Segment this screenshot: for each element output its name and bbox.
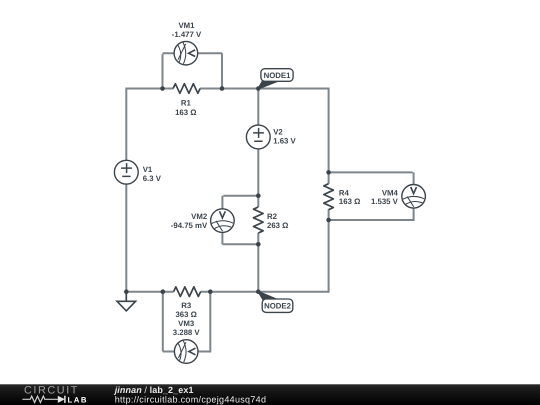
resistor R3 [174, 287, 201, 297]
source V1 [114, 160, 138, 184]
wire VM2 loop top [222, 196, 258, 209]
svg-text:163 Ω: 163 Ω [339, 197, 360, 206]
wire bottom rail right [200, 291, 328, 293]
wire top rail left [126, 88, 173, 90]
wire bottom rail left [126, 291, 173, 293]
junction ground [124, 289, 129, 294]
wire VM3 loop left [163, 292, 175, 352]
svg-text:1.63 V: 1.63 V [273, 137, 296, 146]
wire VM3 loop right [198, 292, 210, 353]
svg-text:R2: R2 [267, 212, 278, 221]
wire right rail lower [328, 209, 330, 292]
junction R2 top / VM2 [256, 193, 261, 198]
svg-text:263 Ω: 263 Ω [267, 221, 288, 230]
svg-text:http://circuitlab.com/cpejg44u: http://circuitlab.com/cpejg44usq74d [115, 395, 267, 405]
junction node NODE1 [256, 86, 261, 91]
wire right rail upper [328, 88, 330, 184]
ground [117, 292, 136, 311]
svg-text:VM4: VM4 [382, 188, 399, 197]
svg-text:R4: R4 [339, 188, 350, 197]
junction R3 right / VM3 [208, 289, 213, 294]
svg-text:NODE2: NODE2 [264, 302, 292, 311]
wire center column bottom [257, 233, 259, 292]
voltmeter VM3 [174, 340, 198, 364]
logo wire-diode line [22, 396, 58, 402]
voltmeter VM4 [402, 185, 426, 209]
svg-text:R1: R1 [181, 99, 192, 108]
junction R2 bottom / VM2 [256, 242, 261, 247]
wire VM1 loop right [198, 53, 222, 88]
junction node NODE2 [256, 289, 261, 294]
voltmeter VM1 [174, 41, 198, 65]
wire top rail right [200, 88, 329, 90]
junction R4 top / VM4 [326, 170, 331, 175]
svg-text:LAB: LAB [68, 395, 89, 404]
svg-text:363 Ω: 363 Ω [175, 310, 196, 319]
wire center column mid [257, 149, 259, 207]
svg-text:163 Ω: 163 Ω [175, 108, 196, 117]
junction R3 left / VM3 [161, 289, 166, 294]
node NODE2 [257, 291, 293, 313]
junction R4 bottom / VM4 [326, 218, 331, 223]
resistor R4 [324, 184, 334, 210]
wire center column top [257, 89, 259, 126]
junction R1 right / VM1 [220, 86, 225, 91]
wire VM2 loop bottom [222, 232, 258, 244]
source V2 [246, 125, 270, 149]
wire VM4 loop bottom [329, 208, 415, 220]
node NODE1 [257, 69, 293, 90]
wire left rail lower [125, 184, 127, 292]
svg-text:-94.75 mV: -94.75 mV [171, 221, 208, 230]
svg-text:3.288 V: 3.288 V [173, 328, 201, 337]
resistor R2 [253, 207, 263, 233]
resistor R1 [173, 84, 200, 94]
junction R1 left / VM1 [160, 86, 165, 91]
svg-text:-1.477 V: -1.477 V [172, 30, 202, 39]
svg-text:VM2: VM2 [191, 212, 208, 221]
voltmeter VM2 [211, 209, 235, 233]
svg-text:V1: V1 [143, 165, 153, 174]
svg-text:1.535 V: 1.535 V [371, 197, 399, 206]
svg-text:R3: R3 [181, 301, 192, 310]
svg-text:VM3: VM3 [178, 319, 195, 328]
wire left rail upper [125, 88, 127, 161]
wire VM4 loop top [329, 172, 414, 184]
svg-text:jinnan / lab_2_ex1: jinnan / lab_2_ex1 [114, 385, 194, 395]
svg-text:NODE1: NODE1 [264, 71, 292, 80]
svg-text:V2: V2 [273, 128, 283, 137]
footer bar [0, 384, 540, 405]
wire VM1 loop left [163, 53, 175, 88]
svg-text:VM1: VM1 [178, 21, 195, 30]
svg-text:6.3 V: 6.3 V [143, 174, 162, 183]
